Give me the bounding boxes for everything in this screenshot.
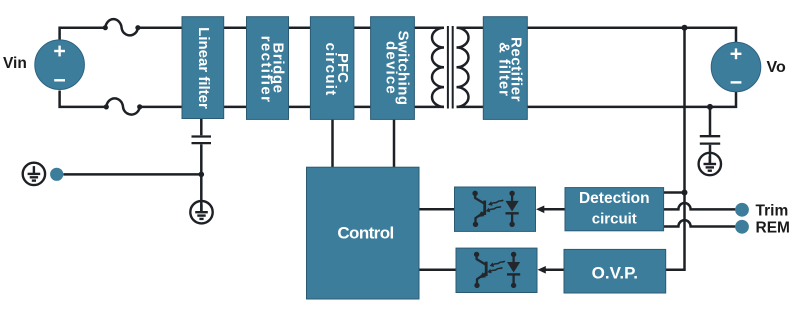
wire: secondary to rectifier block (top) [457, 26, 484, 29]
transformer T1 core [447, 26, 449, 109]
wire: chassis node horizontal [63, 173, 201, 176]
junction dot bottom rail [707, 104, 713, 110]
fuse F1 terminal dots [103, 25, 108, 30]
block Control [307, 167, 420, 299]
block Bridge rectifier [247, 17, 289, 120]
junction dot chassis node [199, 172, 205, 178]
fuse F2 (bottom) [106, 98, 139, 114]
arrowhead into optocoupler 2 [538, 266, 546, 274]
wire: C1 to junction [200, 144, 203, 174]
fuse F1 (top) [105, 19, 138, 35]
capacitor C1 [192, 135, 212, 137]
block Switching device [371, 17, 415, 120]
wire: Detection circuit to sense line [664, 191, 685, 194]
wire: top rail after fuse to transformer primary [138, 26, 444, 29]
terminal dot chassis [50, 168, 63, 181]
wire: secondary to rectifier block (bottom) [457, 106, 484, 109]
svg-text:Vin: Vin [3, 55, 27, 72]
source Vin [35, 40, 85, 90]
fuse F2 terminal dots [104, 104, 109, 109]
block PFC circuit [310, 17, 354, 120]
wire: PFC to Control [331, 120, 334, 168]
svg-text:circuit: circuit [322, 42, 339, 96]
wire: Control to optocoupler 2 [419, 269, 456, 272]
svg-text:device: device [383, 41, 400, 95]
block O.V.P. [564, 249, 666, 293]
svg-text:Linear filter: Linear filter [195, 27, 212, 109]
wire: Control to optocoupler 1 [419, 208, 455, 211]
wire: Switching device to Control [393, 120, 396, 168]
wire: Detection circuit to REM (with hop) [664, 220, 736, 226]
wire: Linear filter to capacitor C1 [200, 119, 203, 136]
source Vo [711, 42, 761, 92]
block Linear filter [182, 17, 224, 119]
wire: bottom rail junction to capacitor C2 [709, 107, 712, 135]
ground G1 (chassis, left) [23, 163, 45, 185]
svg-text:& filter: & filter [495, 42, 512, 97]
terminal dot REM [735, 220, 749, 234]
junction dot top rail [682, 25, 688, 31]
junction dot sense line [682, 190, 688, 196]
wire: bottom rail after fuse to transformer primary [140, 106, 444, 109]
block Rectifier & filter [483, 17, 527, 120]
wire: C2 to ground G3 [709, 145, 712, 164]
ground G2 (below C1) [190, 201, 212, 223]
arrowhead into optocoupler 1 [536, 206, 544, 214]
svg-text:Trim: Trim [756, 202, 789, 219]
optocoupler U2 box [456, 248, 537, 292]
svg-text:REM: REM [756, 219, 790, 236]
wire: junction to ground G2 [200, 174, 203, 212]
wire: O.V.P. arrow line [545, 269, 565, 272]
wire: Vin to bottom rail [60, 91, 107, 107]
svg-text:Vo: Vo [767, 59, 786, 76]
svg-text:Detection: Detection [579, 190, 650, 207]
svg-text:Control: Control [337, 224, 393, 243]
wire: top rail rectifier block to Vo [527, 28, 736, 42]
svg-text:rectifier: rectifier [258, 36, 275, 104]
ground G3 (below C2) [699, 153, 721, 175]
svg-text:circuit: circuit [592, 211, 637, 228]
transformer T1 primary winding [432, 28, 444, 107]
transformer T1 secondary winding [457, 28, 469, 107]
terminal dot Trim [735, 203, 749, 217]
block Detection circuit [565, 188, 664, 231]
wire: Vin to top rail [60, 28, 106, 41]
wire: Detection circuit arrow line [543, 208, 566, 211]
svg-text:O.V.P.: O.V.P. [592, 263, 638, 282]
wire: output sense line down to O.V.P. [666, 28, 685, 270]
wire: bottom rail rectifier block to Vo [527, 92, 736, 107]
wire: Detection circuit to Trim (with hop) [664, 203, 736, 209]
capacitor C2 [700, 135, 720, 137]
optocoupler U1 box [455, 187, 536, 231]
